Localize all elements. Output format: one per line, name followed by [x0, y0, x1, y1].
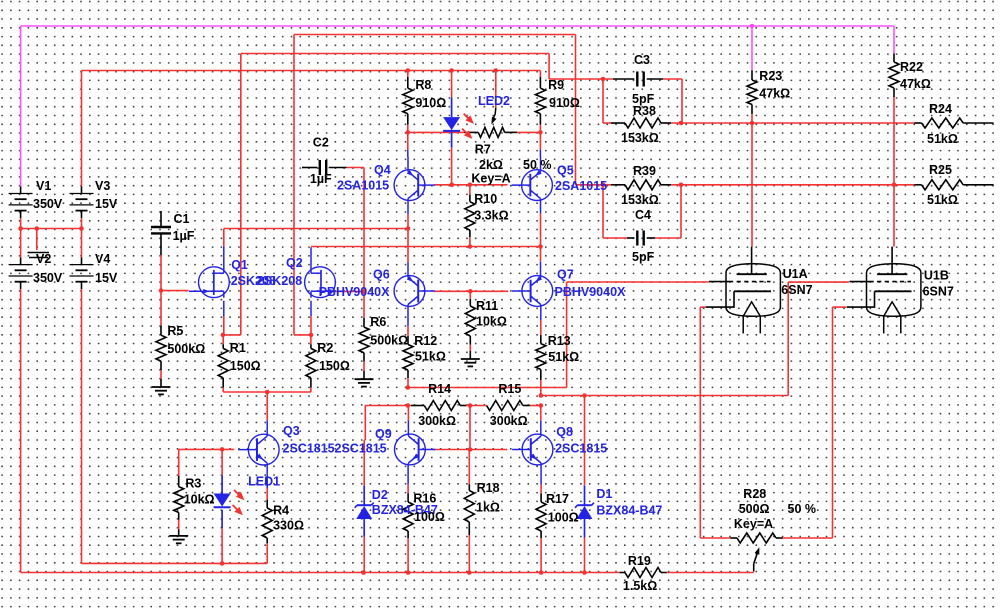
svg-text:LED2: LED2 [478, 94, 510, 108]
svg-text:R7: R7 [475, 143, 491, 157]
svg-text:R9: R9 [548, 78, 564, 92]
svg-text:300kΩ: 300kΩ [490, 414, 528, 428]
svg-text:C2: C2 [313, 136, 329, 150]
svg-text:Q4: Q4 [374, 163, 391, 177]
svg-text:51kΩ: 51kΩ [927, 132, 958, 146]
svg-text:47kΩ: 47kΩ [900, 77, 931, 91]
svg-text:2kΩ: 2kΩ [479, 158, 503, 172]
svg-text:R15: R15 [498, 382, 521, 396]
svg-text:150Ω: 150Ω [230, 359, 261, 373]
svg-text:PBHV9040X: PBHV9040X [319, 285, 391, 299]
svg-text:1kΩ: 1kΩ [476, 501, 500, 515]
svg-text:Q9: Q9 [375, 427, 392, 441]
svg-text:15V: 15V [95, 197, 118, 211]
svg-text:Q6: Q6 [373, 268, 390, 282]
svg-text:R16: R16 [413, 492, 436, 506]
svg-text:1.5kΩ: 1.5kΩ [623, 579, 657, 593]
svg-text:3.3kΩ: 3.3kΩ [474, 208, 508, 222]
svg-text:153kΩ: 153kΩ [621, 131, 659, 145]
svg-text:U1A: U1A [783, 267, 808, 281]
svg-text:6SN7: 6SN7 [923, 284, 954, 298]
svg-text:10kΩ: 10kΩ [184, 493, 215, 507]
svg-text:U1B: U1B [924, 269, 949, 283]
svg-text:V3: V3 [95, 179, 110, 193]
svg-text:R19: R19 [628, 554, 651, 568]
svg-text:1µF: 1µF [173, 229, 195, 243]
svg-text:R4: R4 [273, 504, 289, 518]
svg-text:C3: C3 [634, 53, 650, 67]
svg-text:BZX84-B47: BZX84-B47 [596, 503, 662, 517]
svg-text:100Ω: 100Ω [548, 511, 579, 525]
svg-text:Q8: Q8 [556, 425, 573, 439]
svg-text:Q2: Q2 [286, 256, 303, 270]
svg-text:R24: R24 [929, 102, 952, 116]
svg-text:R23: R23 [759, 69, 782, 83]
svg-text:10kΩ: 10kΩ [476, 314, 507, 328]
svg-text:R18: R18 [477, 481, 500, 495]
svg-text:153kΩ: 153kΩ [621, 193, 659, 207]
svg-text:R1: R1 [230, 341, 246, 355]
svg-text:D1: D1 [596, 487, 612, 501]
svg-text:6SN7: 6SN7 [781, 283, 812, 297]
svg-text:D2: D2 [372, 488, 388, 502]
svg-text:300kΩ: 300kΩ [418, 414, 456, 428]
svg-text:500kΩ: 500kΩ [167, 342, 205, 356]
svg-text:51kΩ: 51kΩ [415, 350, 446, 364]
svg-text:50 %: 50 % [788, 502, 817, 516]
svg-text:R38: R38 [633, 104, 656, 118]
svg-text:2SK208: 2SK208 [257, 274, 302, 288]
svg-text:1µF: 1µF [310, 172, 332, 186]
svg-text:R8: R8 [415, 78, 431, 92]
svg-text:R5: R5 [167, 324, 183, 338]
svg-text:2SC1815: 2SC1815 [555, 442, 607, 456]
svg-text:51kΩ: 51kΩ [927, 193, 958, 207]
svg-text:51kΩ: 51kΩ [548, 350, 579, 364]
svg-text:500kΩ: 500kΩ [370, 334, 408, 348]
svg-text:910Ω: 910Ω [549, 96, 580, 110]
svg-text:V1: V1 [36, 179, 51, 193]
svg-text:2SA1015: 2SA1015 [555, 179, 607, 193]
svg-text:R10: R10 [474, 192, 497, 206]
svg-text:R13: R13 [548, 334, 571, 348]
svg-text:5pF: 5pF [632, 250, 655, 264]
svg-text:C1: C1 [174, 212, 190, 226]
svg-text:R14: R14 [428, 382, 451, 396]
svg-text:R22: R22 [900, 60, 923, 74]
svg-text:Key=A: Key=A [734, 517, 773, 531]
svg-text:R12: R12 [414, 334, 437, 348]
svg-text:R28: R28 [743, 487, 766, 501]
svg-text:R17: R17 [546, 492, 569, 506]
svg-text:V2: V2 [36, 252, 51, 266]
svg-text:R11: R11 [476, 299, 498, 313]
svg-text:100Ω: 100Ω [414, 510, 445, 524]
svg-text:350V: 350V [33, 271, 63, 285]
svg-text:Q7: Q7 [557, 268, 574, 282]
svg-text:2SC1815: 2SC1815 [283, 442, 335, 456]
svg-text:330Ω: 330Ω [273, 519, 304, 533]
svg-text:C4: C4 [635, 208, 651, 222]
svg-text:R25: R25 [929, 163, 952, 177]
svg-text:50 %: 50 % [523, 158, 552, 172]
svg-text:PBHV9040X: PBHV9040X [555, 285, 627, 299]
svg-text:LED1: LED1 [248, 475, 280, 489]
svg-text:R3: R3 [185, 477, 201, 491]
svg-text:2SA1015: 2SA1015 [337, 179, 389, 193]
svg-text:Q5: Q5 [557, 164, 574, 178]
svg-text:R2: R2 [317, 341, 333, 355]
svg-text:V4: V4 [95, 252, 110, 266]
svg-text:150Ω: 150Ω [319, 359, 350, 373]
svg-text:500Ω: 500Ω [739, 502, 770, 516]
svg-text:Q1: Q1 [231, 258, 248, 272]
svg-text:47kΩ: 47kΩ [759, 87, 790, 101]
svg-text:2SC1815: 2SC1815 [335, 442, 387, 456]
svg-text:R39: R39 [633, 164, 656, 178]
svg-text:Key=A: Key=A [471, 172, 510, 186]
svg-text:15V: 15V [95, 271, 118, 285]
svg-text:R6: R6 [370, 315, 386, 329]
svg-text:910Ω: 910Ω [415, 96, 446, 110]
svg-text:Q3: Q3 [283, 424, 300, 438]
svg-text:350V: 350V [33, 197, 63, 211]
